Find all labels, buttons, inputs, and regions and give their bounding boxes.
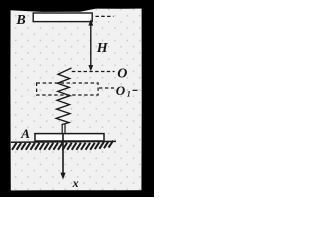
short dash right of O1 — [133, 89, 138, 91]
svg-text:B: B — [15, 13, 25, 28]
spring — [56, 68, 71, 125]
svg-text:1: 1 — [127, 90, 131, 99]
paper background with halftone dots — [0, 0, 154, 197]
black scan border: left band — [0, 0, 11, 197]
ground hatching — [12, 141, 113, 150]
x axis line — [62, 134, 64, 175]
measurement line H (vertical) — [90, 22, 92, 70]
block A — [35, 134, 104, 141]
dashed level line right of block B — [96, 15, 114, 17]
dashed line O level — [72, 71, 115, 73]
svg-text:x: x — [72, 176, 79, 190]
svg-text:O: O — [117, 67, 127, 82]
black scan border: bottom band — [0, 190, 154, 197]
svg-text:H: H — [96, 41, 109, 56]
svg-text:A: A — [20, 126, 30, 141]
spring lower stem (double line) — [61, 124, 63, 134]
arrowhead up (at block B bottom) — [88, 19, 93, 25]
arrowhead down (at O level) — [88, 65, 93, 71]
ground line — [11, 140, 116, 143]
dashed line to O1 — [99, 87, 114, 89]
x axis arrowhead — [60, 173, 65, 180]
dashed rectangle (equilibrium region) — [37, 83, 99, 95]
black scan border: right band — [141, 8, 154, 197]
black scan border: top band — [0, 0, 154, 12]
block B — [33, 13, 92, 22]
svg-text:O: O — [116, 83, 126, 98]
